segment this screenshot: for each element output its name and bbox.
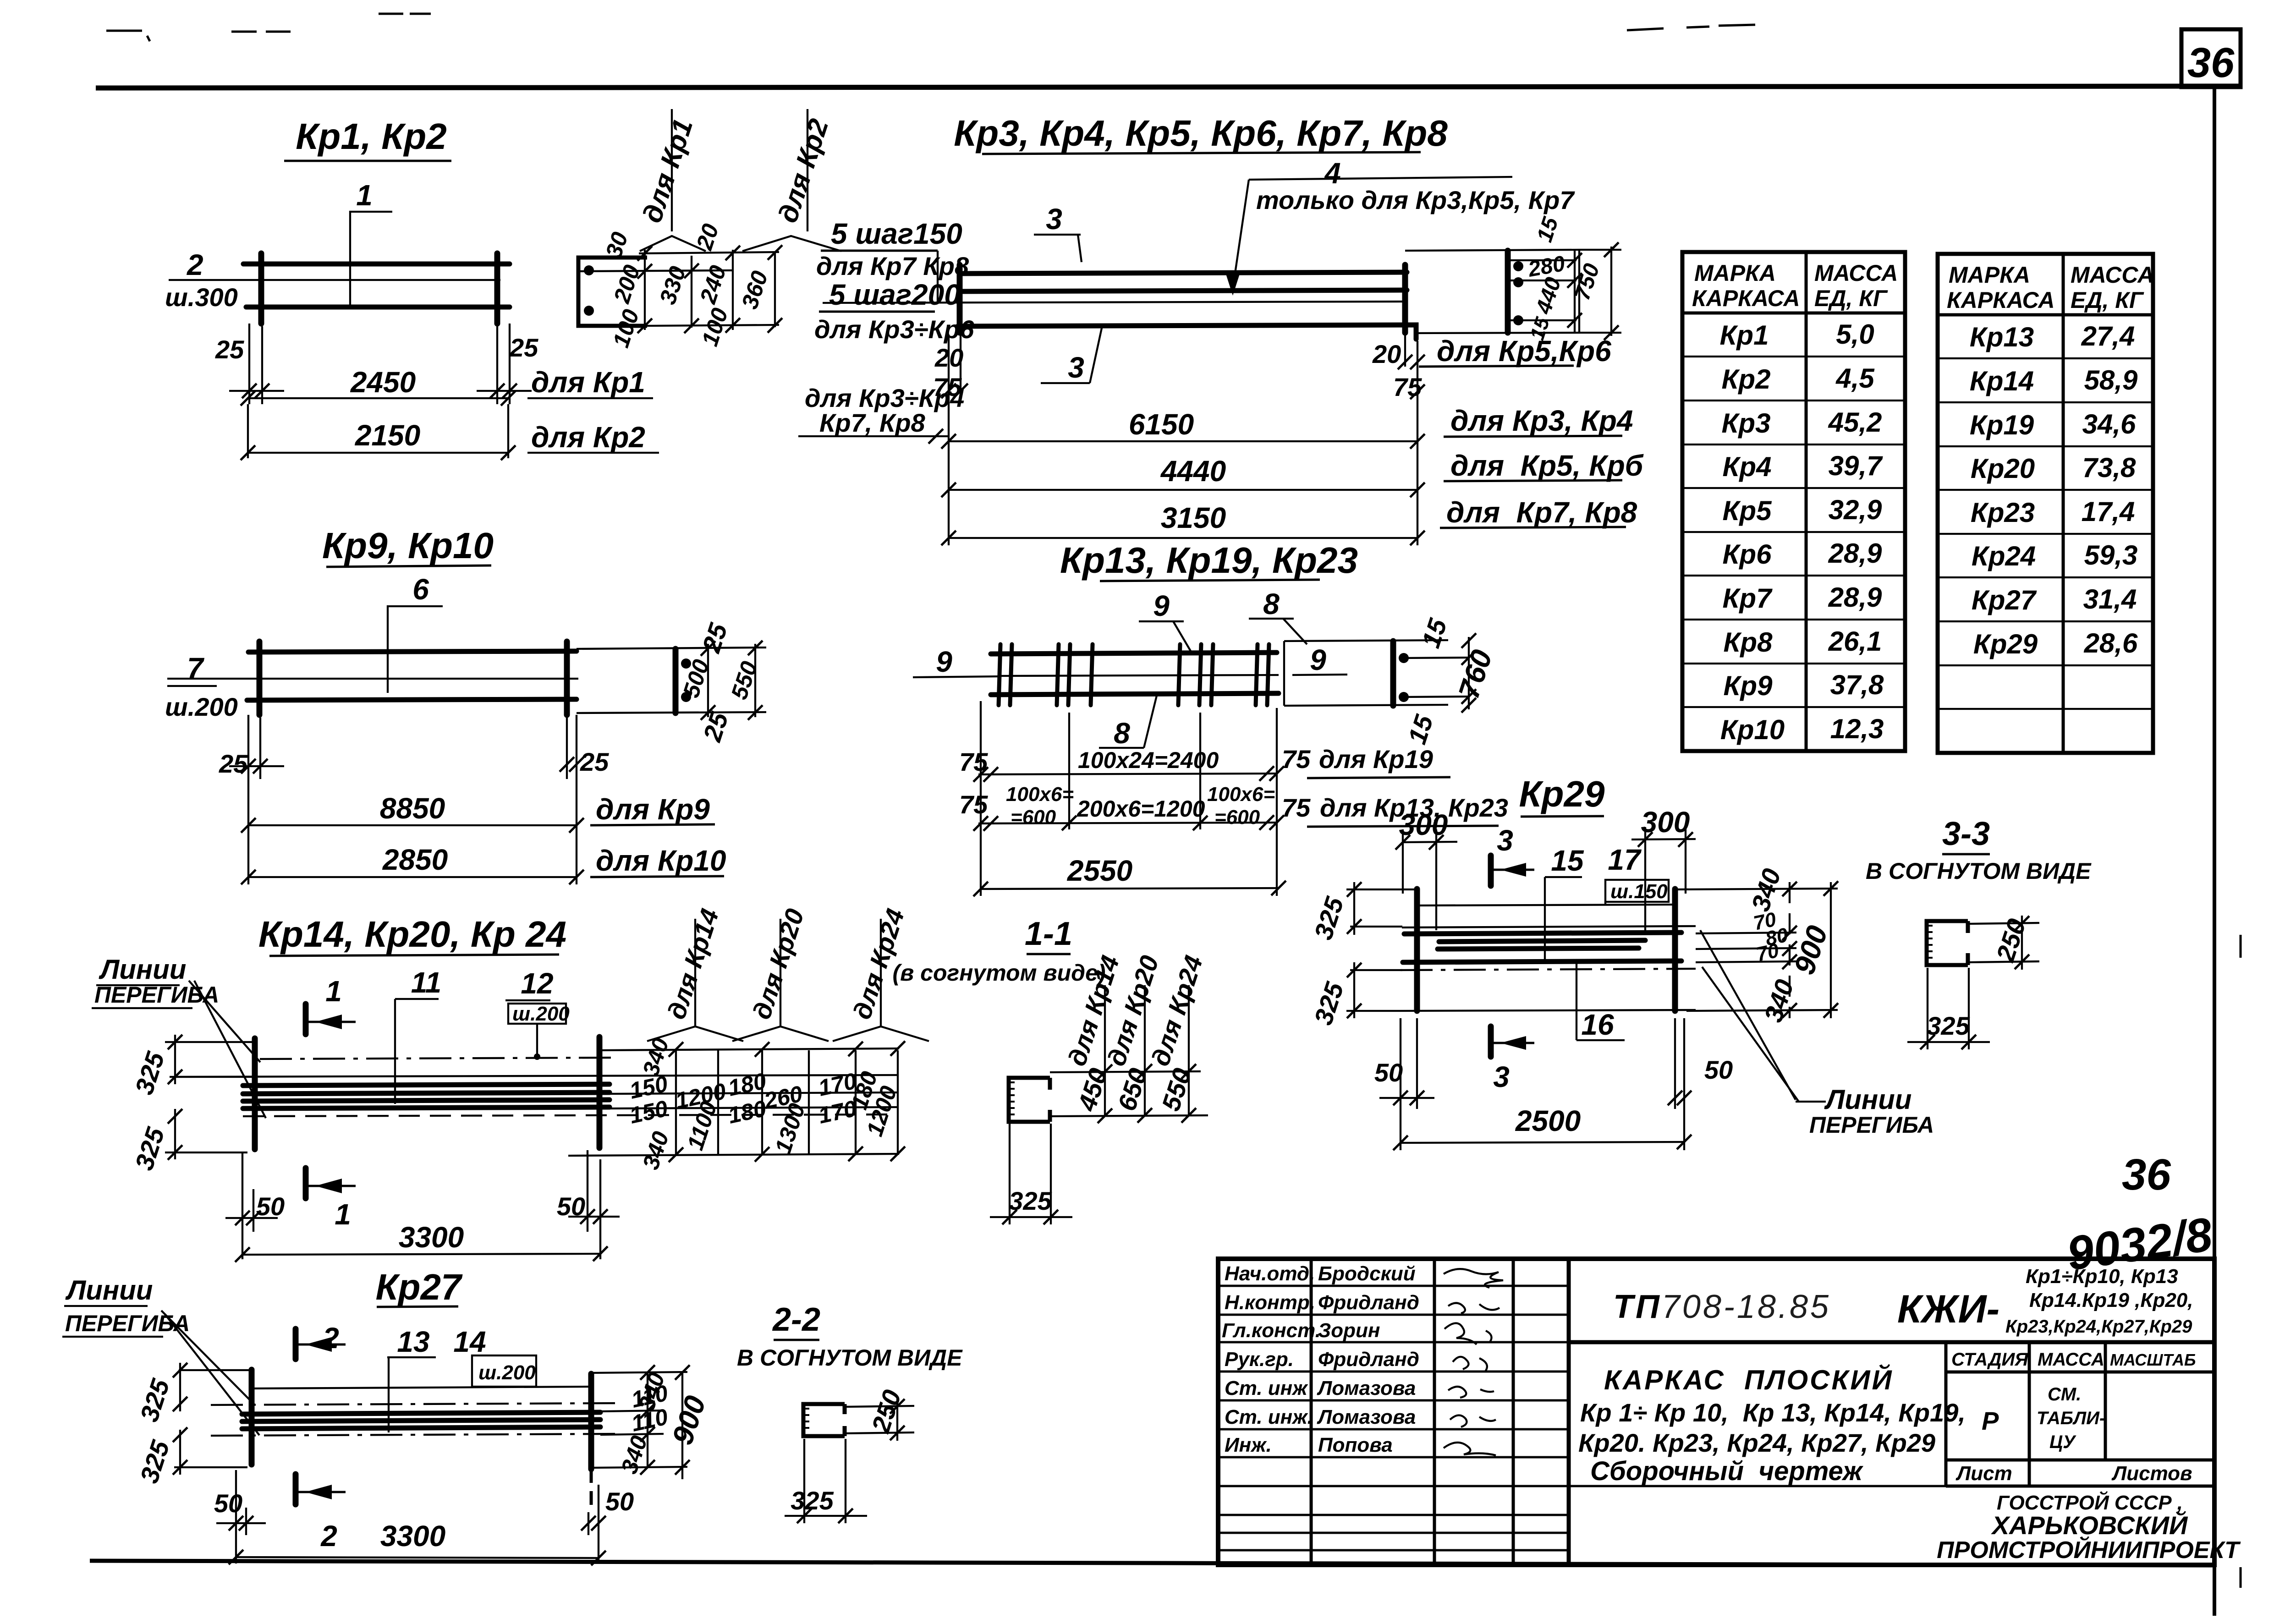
1-1 dim 325	[990, 1124, 1072, 1224]
svg-text:75: 75	[1282, 745, 1311, 774]
svg-text:11: 11	[411, 966, 441, 999]
svg-text:13: 13	[397, 1325, 429, 1358]
svg-text:ш.200: ш.200	[165, 692, 238, 721]
Kp27 main bars	[242, 1412, 600, 1414]
svg-text:1: 1	[356, 179, 373, 212]
right border outer dashes	[2240, 935, 2242, 958]
dim 20 left	[934, 335, 968, 403]
Kp14 thin lines to dim grid	[610, 1092, 898, 1094]
Kp3 section rotated dims	[1526, 214, 1604, 343]
Kp29 bottom thin line	[1401, 1010, 1696, 1011]
Kp9 bottom bar	[247, 699, 577, 700]
svg-text:ш.200: ш.200	[478, 1361, 536, 1384]
title Kp14,20,24	[258, 914, 566, 956]
svg-text:50: 50	[214, 1489, 242, 1518]
label 3 upper	[1034, 203, 1082, 262]
svg-text:для Кр7 Кр8: для Кр7 Кр8	[816, 252, 969, 280]
label 3 lower	[1041, 328, 1102, 384]
svg-text:Кр27: Кр27	[1972, 585, 2037, 615]
svg-text:Фридланд: Фридланд	[1318, 1348, 1419, 1371]
svg-text:Кр19: Кр19	[1970, 410, 2034, 440]
3-3 dim 325	[1907, 968, 1990, 1049]
svg-text:ТАБЛИ-: ТАБЛИ-	[2037, 1408, 2105, 1428]
Kp9 top bar	[248, 651, 577, 652]
Kp1 right end bar	[494, 253, 500, 324]
Kp29 right dims 340/70/80/70/340/900	[1675, 865, 1838, 1026]
svg-text:Сборочный чертеж: Сборочный чертеж	[1590, 1456, 1864, 1486]
linii peregiba label top-left	[92, 954, 266, 1118]
dim 50 right	[557, 1150, 620, 1259]
Kp29 left end bar	[1414, 889, 1420, 1011]
svg-text:Кр7, Кр8: Кр7, Кр8	[819, 408, 926, 437]
svg-text:36: 36	[2187, 39, 2235, 86]
svg-text:Кр29: Кр29	[1519, 774, 1605, 814]
svg-text:3150: 3150	[1161, 501, 1226, 534]
svg-text:В СОГНУТОМ ВИДЕ: В СОГНУТОМ ВИДЕ	[737, 1345, 963, 1371]
svg-text:26,1: 26,1	[1828, 626, 1882, 657]
svg-text:Кр14.Кр19 ,Кр20,: Кр14.Кр19 ,Кр20,	[2029, 1289, 2193, 1311]
svg-text:4: 4	[1324, 157, 1341, 190]
gosstroy	[1937, 1491, 2241, 1564]
svg-text:Кр4: Кр4	[1723, 451, 1772, 482]
dim 50 left	[225, 1152, 285, 1259]
svg-text:ЦУ: ЦУ	[2049, 1432, 2076, 1452]
svg-text:9: 9	[1153, 589, 1170, 622]
svg-text:Линии: Линии	[65, 1275, 153, 1306]
section marker 1 top	[306, 975, 356, 1034]
svg-text:5,0: 5,0	[1836, 319, 1874, 350]
svg-text:Ст. инж: Ст. инж	[1225, 1377, 1308, 1399]
section marker 2 top	[296, 1322, 346, 1359]
svg-text:17: 17	[1608, 843, 1642, 876]
svg-text:МАСШТАБ: МАСШТАБ	[2110, 1350, 2196, 1369]
svg-text:Листов: Листов	[2111, 1462, 2192, 1485]
dim 3300 Kp27	[229, 1520, 606, 1565]
title Kp27	[375, 1267, 463, 1307]
svg-text:4440: 4440	[1160, 455, 1226, 488]
end section dim grid	[578, 250, 779, 330]
svg-text:МАРКА: МАРКА	[1949, 262, 2030, 288]
title Kp1,Kp2	[284, 116, 451, 161]
title 2-2	[737, 1301, 963, 1371]
svg-text:3: 3	[1046, 203, 1062, 236]
svg-text:Кр13, Кр19, Кр23: Кр13, Кр19, Кр23	[1060, 540, 1358, 581]
svg-text:Кр8: Кр8	[1724, 627, 1773, 658]
label 9 left	[913, 645, 1001, 678]
svg-text:Линии: Линии	[1824, 1084, 1911, 1115]
signatures squiggles	[1444, 1269, 1503, 1455]
Kp14 right end bar	[597, 1037, 603, 1148]
svg-text:50: 50	[1704, 1055, 1733, 1084]
label 13	[387, 1325, 436, 1432]
svg-text:8: 8	[1263, 587, 1280, 620]
label dlya Kp5 Kp6 upper	[1419, 335, 1611, 368]
ext verticals for long dims	[948, 403, 950, 545]
label 8 top	[1249, 587, 1307, 644]
label 14 sh.200	[453, 1325, 536, 1387]
dim 50 left Kp29	[1374, 1018, 1434, 1150]
svg-text:В СОГНУТОМ ВИДЕ: В СОГНУТОМ ВИДЕ	[1866, 858, 2092, 884]
svg-text:для Кр7, Кр8: для Кр7, Кр8	[1446, 496, 1637, 529]
Kp14 fold line top (dash-dot)	[260, 1058, 616, 1059]
Kp1 left end bar	[258, 253, 264, 324]
svg-text:3300: 3300	[380, 1520, 445, 1553]
stadia massa masshtab	[1951, 1350, 2196, 1370]
svg-text:1-1: 1-1	[1025, 916, 1072, 952]
svg-text:50: 50	[605, 1487, 634, 1516]
label 2 sh.300	[165, 248, 500, 312]
svg-text:Р: Р	[1982, 1406, 1999, 1435]
Kp1/Kp2 end section profile	[578, 258, 647, 326]
Kp14 left end bar	[252, 1038, 258, 1149]
section marker 1 bottom	[306, 1168, 356, 1231]
verticals	[1310, 1259, 1313, 1565]
Kp13 end section	[1284, 615, 1499, 748]
dim 2500	[1393, 1104, 1692, 1150]
svg-text:Кр23: Кр23	[1971, 497, 2035, 528]
svg-text:КАРКАСА: КАРКАСА	[1947, 287, 2055, 313]
svg-text:45,2: 45,2	[1828, 407, 1882, 438]
Kp29 top thin line	[1418, 905, 1674, 905]
1-1 C profile	[1009, 1078, 1050, 1122]
svg-text:100х6=: 100х6=	[1006, 783, 1074, 806]
svg-text:2-2: 2-2	[772, 1301, 820, 1338]
dim 25 left	[215, 324, 284, 404]
svg-text:=600: =600	[1214, 806, 1260, 828]
svg-text:12: 12	[521, 967, 553, 1000]
svg-text:Попова: Попова	[1318, 1434, 1393, 1456]
1-1 columns 450/650/550	[1105, 985, 1189, 1116]
svg-text:ш.300: ш.300	[165, 283, 238, 312]
Kp1 bottom bar	[246, 305, 510, 310]
sheet frame: bottom border	[90, 1561, 2214, 1565]
2-2 C profile	[803, 1404, 845, 1436]
svg-text:3: 3	[1068, 351, 1084, 384]
Kp27 right end bar	[588, 1374, 594, 1469]
svg-text:37,8: 37,8	[1830, 669, 1884, 700]
label 11	[395, 966, 441, 1104]
label 7 sh.200	[165, 652, 578, 721]
svg-text:2450: 2450	[350, 366, 416, 399]
label 1 leader	[350, 179, 392, 306]
left labels 5 shag200	[814, 278, 974, 344]
svg-text:1: 1	[325, 975, 342, 1008]
rotated bracket labels dlya Kp14/20/24	[647, 905, 929, 1041]
svg-text:27,4: 27,4	[2081, 321, 2135, 351]
svg-text:5 шаг150: 5 шаг150	[831, 217, 962, 250]
Kp13 cross ties	[999, 644, 1269, 705]
svg-text:16: 16	[1581, 1008, 1614, 1041]
svg-text:(в согнутом виде): (в согнутом виде)	[892, 960, 1105, 986]
rotated label dlya Kp1 (vertical leader)	[637, 109, 706, 251]
svg-text:Кр24: Кр24	[1972, 541, 2036, 571]
personnel rows	[1222, 1262, 1419, 1456]
svg-text:8: 8	[1114, 717, 1130, 750]
dim 50 right Kp27	[581, 1485, 634, 1564]
left labels 5 shag150	[816, 217, 969, 302]
Kp3 left end bar	[957, 265, 963, 333]
Kp1 top bar	[243, 262, 510, 267]
svg-text:6: 6	[412, 573, 429, 606]
Kp29 thin line 2	[1402, 926, 1696, 927]
svg-text:2150: 2150	[355, 419, 420, 452]
Kp29 bars	[1404, 933, 1681, 934]
dim 20 right	[1372, 335, 1425, 403]
svg-text:Бродский: Бродский	[1318, 1262, 1416, 1285]
svg-text:58,9: 58,9	[2084, 365, 2138, 395]
svg-text:75: 75	[959, 790, 988, 819]
svg-text:6150: 6150	[1129, 408, 1194, 441]
2-2 dim 250	[845, 1386, 914, 1441]
svg-text:ш.200: ш.200	[512, 1003, 570, 1025]
svg-text:25: 25	[215, 335, 244, 364]
label 9 right	[1292, 643, 1347, 676]
svg-text:15: 15	[1551, 844, 1584, 877]
svg-text:КАРКАСА: КАРКАСА	[1692, 285, 1800, 311]
svg-text:2500: 2500	[1515, 1104, 1581, 1137]
label 9 top	[1139, 589, 1192, 653]
dim 3300 Kp14	[235, 1221, 608, 1262]
svg-text:2: 2	[320, 1520, 337, 1553]
title Kp29	[1519, 774, 1605, 817]
svg-text:325: 325	[1009, 1186, 1052, 1215]
svg-text:32,9: 32,9	[1829, 494, 1882, 525]
section marker 3 bottom	[1491, 1026, 1534, 1093]
svg-text:12,3: 12,3	[1830, 713, 1884, 744]
svg-text:ЕД, КГ: ЕД, КГ	[1814, 285, 1888, 311]
svg-text:25: 25	[509, 333, 538, 362]
Kp3 cage bars	[960, 272, 1407, 274]
label 8 bottom	[1099, 696, 1157, 750]
Kp27 top thin line	[254, 1387, 590, 1388]
svg-text:Ломазова: Ломазова	[1317, 1406, 1416, 1428]
Kp29 dash-dot line	[1401, 969, 1696, 970]
svg-text:ПРОМСТРОЙНИИПРОЕКТ: ПРОМСТРОЙНИИПРОЕКТ	[1937, 1536, 2241, 1564]
svg-text:3-3: 3-3	[1942, 816, 1990, 852]
dim 25 bottom-left	[219, 715, 284, 884]
svg-text:Рук.гр.: Рук.гр.	[1225, 1348, 1294, 1371]
svg-text:36: 36	[2122, 1150, 2171, 1199]
Kp13 dim row2: 100x6=600 200x6=1200 100x6=600	[959, 783, 1508, 831]
svg-text:Кр3: Кр3	[1722, 408, 1771, 439]
dim 75 right	[1393, 373, 1425, 401]
svg-text:только для Кр3,Кр5, Кр7: только для Кр3,Кр5, Кр7	[1256, 186, 1575, 214]
sheet frame: right border	[2213, 87, 2216, 1616]
svg-text:75: 75	[1393, 373, 1422, 401]
3-3 dim 250	[1968, 915, 2039, 970]
svg-text:Кр2: Кр2	[1722, 364, 1771, 395]
Kp14 fold line bottom (dashed)	[243, 1114, 898, 1116]
svg-text:для Кр2: для Кр2	[531, 421, 645, 454]
dim 75 left + labels	[798, 373, 964, 444]
2-2 dim 325	[785, 1439, 867, 1523]
Kp14 main bars	[243, 1084, 610, 1086]
dim 50 right Kp29	[1668, 1018, 1733, 1150]
svg-text:39,7: 39,7	[1829, 450, 1883, 481]
svg-text:325: 325	[1927, 1011, 1970, 1040]
svg-text:2: 2	[187, 248, 203, 281]
label 16	[1576, 963, 1625, 1041]
svg-text:ПЕРЕГИБА: ПЕРЕГИБА	[1809, 1112, 1934, 1138]
svg-text:Кр20. Кр23, Кр24, Кр27, Кр29: Кр20. Кр23, Кр24, Кр27, Кр29	[1578, 1428, 1935, 1457]
svg-text:25: 25	[580, 747, 609, 776]
svg-text:Кр3, Кр4, Кр5, Кр6, Кр7, Кр8: Кр3, Кр4, Кр5, Кр6, Кр7, Кр8	[954, 113, 1448, 154]
dim 2550	[973, 854, 1286, 896]
svg-text:МАССА: МАССА	[1814, 260, 1898, 286]
label 17 sh.150	[1605, 843, 1669, 905]
svg-text:25: 25	[219, 749, 248, 778]
dim 25 right	[477, 324, 538, 404]
Kp14 thin line	[174, 1075, 898, 1077]
svg-text:3: 3	[1493, 1060, 1510, 1093]
svg-text:для Кр10: для Кр10	[596, 844, 726, 877]
svg-text:34,6: 34,6	[2082, 409, 2136, 439]
svg-text:28,6: 28,6	[2084, 628, 2138, 658]
svg-text:5 шаг200: 5 шаг200	[829, 278, 961, 311]
svg-text:Кр29: Кр29	[1973, 629, 2038, 659]
svg-text:73,8: 73,8	[2082, 452, 2136, 483]
svg-text:СТАДИЯ: СТАДИЯ	[1951, 1350, 2028, 1370]
dim 2450 dlya Kp1	[241, 366, 653, 458]
dim 4440	[941, 449, 1644, 497]
sheet number box 36	[2181, 29, 2241, 87]
Kp9 right end bar	[564, 642, 570, 715]
title 1-1	[892, 916, 1105, 986]
svg-text:9: 9	[1310, 643, 1326, 676]
svg-text:Кр1: Кр1	[1720, 320, 1769, 351]
svg-text:Кр13: Кр13	[1970, 322, 2034, 352]
stray top dashes	[106, 14, 1755, 41]
svg-text:200х6=1200: 200х6=1200	[1077, 796, 1205, 822]
svg-text:Кр9: Кр9	[1724, 670, 1773, 701]
svg-text:МАРКА: МАРКА	[1694, 260, 1776, 286]
svg-text:3: 3	[1497, 824, 1513, 857]
svg-text:для Кр3, Кр4: для Кр3, Кр4	[1450, 404, 1633, 437]
sheet frame: top border	[96, 86, 2241, 88]
svg-text:7: 7	[187, 652, 205, 685]
svg-text:Кр10: Кр10	[1720, 714, 1785, 745]
1-1 leader lines to columns	[1050, 1071, 1201, 1072]
svg-text:Кр20: Кр20	[1971, 453, 2035, 484]
Kp13 middle line	[1001, 675, 1279, 676]
svg-text:100х24=2400: 100х24=2400	[1078, 747, 1219, 773]
linii peregiba label left	[62, 1275, 259, 1435]
dim 8850 dlya Kp9	[241, 792, 715, 833]
svg-text:Лист: Лист	[1955, 1462, 2012, 1485]
svg-text:ЕД, КГ: ЕД, КГ	[2071, 287, 2144, 313]
svg-text:2550: 2550	[1067, 854, 1132, 887]
dim 2150 dlya Kp2	[241, 419, 659, 460]
Kp3 end section box	[1405, 242, 1621, 340]
svg-text:Кр 1÷ Кр 10, Кр 13, Кр14, Кр1: Кр 1÷ Кр 10, Кр 13, Кр14, Кр19,	[1580, 1398, 1966, 1427]
rotated label dlya Kp2 (vertical leader)	[742, 109, 841, 251]
end section rotated dims 30 200 100 330 240 100 20 360	[601, 220, 773, 351]
svg-text:Гл.конст.: Гл.конст.	[1222, 1319, 1321, 1342]
dim 6150	[941, 404, 1633, 449]
svg-text:Кр27: Кр27	[375, 1267, 463, 1307]
svg-text:СМ.: СМ.	[2048, 1384, 2081, 1405]
svg-text:МАССА: МАССА	[2071, 262, 2154, 288]
Kp27 left end bar	[249, 1370, 255, 1465]
svg-text:КЖИ-: КЖИ-	[1897, 1287, 1999, 1331]
title Kp3-Kp8	[954, 113, 1448, 154]
dim 300 left	[1395, 808, 1457, 930]
svg-text:Н.контр.: Н.контр.	[1225, 1291, 1315, 1314]
svg-text:2850: 2850	[382, 843, 448, 876]
svg-text:ХАРЬКОВСКИЙ: ХАРЬКОВСКИЙ	[1991, 1511, 2188, 1540]
svg-text:Кр9, Кр10: Кр9, Кр10	[322, 525, 494, 566]
svg-text:для Кр9: для Кр9	[596, 793, 710, 826]
svg-text:Кр23,Кр24,Кр27,Кр29: Кр23,Кр24,Кр27,Кр29	[2005, 1317, 2192, 1337]
label 12 sh.200	[505, 967, 570, 1060]
Kp13 top bar	[991, 653, 1277, 654]
dim 3150	[941, 496, 1637, 545]
linii peregiba label right	[1809, 1084, 1934, 1138]
dim 300 right	[1631, 806, 1696, 930]
Kp29 right end bar	[1672, 889, 1678, 1011]
svg-text:для Кр5, Крб: для Кр5, Крб	[1450, 449, 1644, 482]
svg-text:Кр1÷Кр10, Кр13: Кр1÷Кр10, Кр13	[2026, 1265, 2178, 1288]
Kp13 bottom bar	[991, 693, 1279, 695]
Kp13 dim row1: 75 100x24=2400 75	[959, 745, 1450, 782]
svg-text:Нач.отд.: Нач.отд.	[1225, 1262, 1315, 1285]
svg-text:МАССА: МАССА	[2038, 1350, 2104, 1370]
svg-text:50: 50	[256, 1192, 285, 1221]
dim 2850 dlya Kp10	[241, 843, 726, 884]
Kp27 fold line top dash-dot	[211, 1403, 621, 1405]
section marker 3 top	[1491, 824, 1534, 886]
svg-text:28,9: 28,9	[1828, 538, 1882, 569]
svg-text:Кр1, Кр2: Кр1, Кр2	[296, 116, 447, 157]
3-3 C profile	[1927, 921, 1968, 965]
svg-text:ТП708-18.85: ТП708-18.85	[1613, 1289, 1831, 1325]
svg-text:Фридланд: Фридланд	[1318, 1291, 1419, 1314]
Kp9 end section	[577, 620, 766, 745]
svg-text:50: 50	[1374, 1058, 1403, 1087]
svg-text:Инж.: Инж.	[1225, 1434, 1272, 1456]
Kp27 right dims 110/110/340/900	[591, 1365, 712, 1479]
svg-text:Линии: Линии	[99, 954, 186, 985]
Kp29 left 325 dims	[1308, 882, 1417, 1028]
svg-text:4,5: 4,5	[1835, 363, 1875, 394]
title Kp9,Kp10	[322, 525, 494, 567]
svg-text:14: 14	[453, 1325, 486, 1358]
label 15	[1545, 844, 1584, 960]
svg-text:Зорин: Зорин	[1318, 1319, 1380, 1342]
svg-text:28,9: 28,9	[1828, 582, 1882, 613]
svg-text:=600: =600	[1011, 806, 1056, 828]
svg-text:59,3: 59,3	[2084, 540, 2138, 571]
Kp13 inner ext verticals	[1068, 713, 1070, 829]
svg-text:75: 75	[1282, 793, 1311, 822]
svg-text:для Кр3÷Кр6: для Кр3÷Кр6	[814, 315, 974, 344]
svg-text:Кр14, Кр20, Кр 24: Кр14, Кр20, Кр 24	[258, 914, 566, 955]
svg-text:1: 1	[335, 1198, 351, 1231]
horizontals right part	[1569, 1340, 2214, 1344]
svg-text:Кр14: Кр14	[1970, 366, 2034, 396]
main title	[1578, 1364, 1966, 1486]
title Kp13,19,23	[1060, 540, 1358, 581]
dim 25 bottom-right	[560, 715, 609, 884]
title 3-3	[1866, 816, 2092, 884]
svg-text:325: 325	[791, 1486, 834, 1515]
Kp3 right end bar	[1402, 265, 1408, 333]
horizontals left part	[1218, 1286, 1569, 1550]
Kp14 dim grid right	[568, 1048, 899, 1156]
svg-text:для Кр19: для Кр19	[1319, 745, 1433, 774]
svg-text:100х6=: 100х6=	[1207, 783, 1275, 806]
Kp14 left 325 dims	[129, 1035, 255, 1174]
